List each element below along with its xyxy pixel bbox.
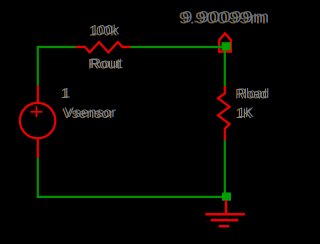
source V1 bottom lead: [37, 139, 39, 158]
svg-text:Rload: Rload: [238, 85, 270, 101]
wire right vertical from node OUT down to resistor Rload: [224, 50, 226, 86]
name label Rload: [235, 85, 269, 102]
svg-text:Rout: Rout: [90, 55, 123, 71]
value label 100k: [89, 22, 120, 39]
resistor Rload 1K (vertical zigzag): [218, 86, 230, 141]
svg-text:100k: 100k: [91, 22, 120, 38]
svg-text:1K: 1K: [238, 104, 255, 120]
name label Vsensor: [62, 104, 116, 121]
wire left vertical lower segment: [37, 158, 39, 198]
ground symbol bar 3: [219, 225, 230, 228]
wire right vertical from resistor Rload down to ground node: [224, 140, 226, 194]
ground node junction square: [222, 193, 231, 201]
voltage source V1 circle: [20, 103, 55, 138]
probe reading 9.90099m: [179, 9, 270, 28]
svg-text:Vsensor: Vsensor: [65, 104, 117, 120]
value label 1K: [236, 104, 255, 121]
svg-text:9.90099m: 9.90099m: [182, 9, 269, 27]
plus sign inside source V1: [30, 111, 42, 113]
ground symbol bar 2: [211, 219, 239, 222]
svg-text:1: 1: [63, 84, 71, 100]
ground symbol stem: [225, 200, 227, 214]
wire bottom horizontal segment: [37, 196, 223, 198]
wire left vertical upper segment: [37, 46, 39, 86]
resistor Rout 100k (horizontal zigzag): [76, 42, 131, 52]
probe marker (red house outline) at node OUT: [219, 33, 231, 51]
wire top-right horizontal segment to node OUT: [130, 46, 223, 48]
wire top-left horizontal segment: [37, 46, 76, 48]
name label Rout: [88, 55, 123, 72]
value label 1: [61, 84, 71, 101]
ground symbol bar 1: [205, 213, 244, 216]
source V1 top lead: [37, 86, 39, 104]
node OUT junction square: [222, 42, 231, 50]
